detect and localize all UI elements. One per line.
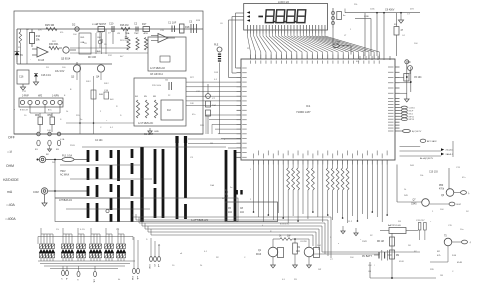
- svg-text:1: 1: [350, 29, 352, 31]
- svg-text:R16 1M: R16 1M: [120, 24, 128, 27]
- svg-text:A-VT1829-2/C: A-VT1829-2/C: [138, 122, 154, 125]
- resistor R16: [120, 24, 130, 31]
- svg-text:C8: C8: [84, 43, 88, 45]
- svg-text:R60: R60: [35, 115, 40, 117]
- ground G1: [271, 265, 276, 268]
- wire opamp row links: [70, 48, 148, 53]
- svg-text:R2: R2: [216, 257, 220, 259]
- svg-text:C8 1UF R14: C8 1UF R14: [150, 74, 163, 76]
- svg-text:2x: 2x: [80, 119, 83, 121]
- wire rail drop x100: [98, 31, 102, 48]
- svg-text:TRA: TRA: [125, 32, 130, 35]
- wire analog ground bus: [17, 62, 112, 64]
- svg-text:1k: 1k: [66, 111, 69, 113]
- svg-text:3V6: 3V6: [38, 30, 43, 32]
- svg-text:D: D: [146, 239, 148, 241]
- ground G5: [354, 228, 358, 236]
- svg-text:R10: R10: [36, 36, 41, 38]
- svg-text:5: 5: [224, 139, 226, 141]
- rotary switch wafer bar S1: [87, 150, 90, 218]
- svg-text:100: 100: [62, 67, 66, 69]
- svg-text:C3: C3: [190, 157, 194, 159]
- svg-text:R4: R4: [135, 96, 139, 98]
- svg-text:C9 400V: C9 400V: [385, 9, 395, 12]
- wire switch top rail: [82, 146, 226, 148]
- resistor R11: [30, 29, 41, 47]
- wire switch crossing 2: [70, 178, 152, 180]
- wire rail drop x113: [112, 31, 114, 44]
- svg-text:mA: mA: [7, 190, 13, 194]
- wire LCD-to-IC fan: [248, 34, 380, 55]
- diode-resistor group G1: [39, 228, 55, 261]
- wire COM to switch: [48, 190, 88, 192]
- svg-text:R12: R12: [108, 55, 113, 57]
- rotary switch wafer bar S11: [225, 150, 228, 221]
- svg-text:2-PNP: 2-PNP: [22, 96, 29, 98]
- diode-resistor group G6: [116, 228, 126, 261]
- LCD module outline: [244, 0, 328, 30]
- IC U1 bottom pin labels: [253, 151, 387, 159]
- svg-text:R15 100k: R15 100k: [152, 85, 162, 87]
- svg-text:/: /: [374, 265, 375, 267]
- connector P5: [148, 238, 160, 269]
- label HZ/DIODE range: [3, 178, 20, 182]
- wire top-left circuit border frame: [14, 11, 203, 134]
- svg-text:AC MAX: AC MAX: [60, 174, 70, 177]
- svg-text:x: x: [14, 109, 16, 111]
- svg-text:C1 10UF: C1 10UF: [144, 134, 154, 136]
- wire OFF bus: [8, 134, 203, 140]
- svg-text:0.1: 0.1: [204, 251, 208, 253]
- attenuator module outline: [55, 198, 238, 222]
- svg-text:47n: 47n: [192, 114, 196, 116]
- component stack near IC left: [206, 84, 217, 134]
- LCD annunciator arrows: [247, 11, 250, 22]
- rotary switch wafer bar S8: [162, 149, 165, 218]
- wire LCD backplane route: [229, 13, 237, 78]
- svg-text:B1: B1: [35, 149, 38, 151]
- wire bottom transistor links: [273, 238, 309, 265]
- op-amp IC1B: [32, 47, 48, 62]
- svg-text:C7: C7: [407, 14, 411, 16]
- resistor R32: [293, 243, 298, 254]
- output jack COM2: [452, 240, 472, 244]
- output jack AC: [454, 191, 471, 195]
- svg-text:1W: 1W: [26, 29, 29, 31]
- svg-text:0V4: 0V4: [410, 9, 415, 11]
- svg-text:470k: 470k: [439, 188, 445, 190]
- svg-text:10A: 10A: [131, 276, 134, 280]
- resistor R25 on rail: [45, 23, 57, 31]
- capacitor C11 C12: [416, 220, 426, 240]
- trimmer VR1: [214, 45, 222, 135]
- svg-text:LT: LT: [344, 35, 347, 37]
- svg-text:R28: R28: [200, 125, 205, 127]
- svg-text:R27: R27: [190, 77, 195, 79]
- resistor R8 col: [153, 96, 158, 118]
- svg-text:S2: S2: [370, 235, 373, 237]
- LCD digits 8.8.8.8: [265, 10, 305, 23]
- svg-text:10: 10: [172, 265, 175, 267]
- svg-text:C13: C13: [456, 167, 461, 169]
- diode-resistor group G2: [61, 228, 74, 261]
- svg-text:9013: 9013: [256, 254, 262, 256]
- svg-text:OFF: OFF: [8, 136, 15, 140]
- svg-text:D2: D2: [72, 23, 76, 27]
- IC U1 bottom pins: [254, 160, 388, 165]
- svg-text:R6 1M: R6 1M: [377, 241, 384, 243]
- svg-text:22k: 22k: [354, 4, 358, 6]
- hybrid module A-VT1829 box: [134, 78, 186, 126]
- svg-text:E: E: [64, 95, 66, 97]
- connector P1: [60, 266, 69, 280]
- label mA range: [7, 190, 13, 194]
- diode-resistor group G5: [104, 228, 114, 261]
- svg-text:R19: R19: [196, 20, 201, 22]
- svg-text:E B C E: E B C E: [20, 110, 28, 112]
- label cluster mid-left: [55, 56, 97, 73]
- ground top right: [398, 12, 403, 23]
- svg-text:C945: C945: [411, 204, 417, 206]
- wire right lower vertical: [448, 168, 450, 189]
- svg-text:AT2 2A32: AT2 2A32: [427, 140, 437, 143]
- LCD minus sign: [258, 16, 263, 18]
- svg-text:D: D: [120, 115, 122, 117]
- wire block verticals: [96, 29, 106, 54]
- svg-text:mA: mA: [157, 264, 160, 268]
- svg-text:D3: D3: [46, 67, 50, 69]
- transistor Q4: [96, 64, 105, 79]
- svg-text:104: 104: [350, 257, 354, 259]
- wire module1 bottom labels: [150, 74, 163, 76]
- rotary switch wafer bar S6: [140, 147, 143, 222]
- wire switch right links: [188, 139, 241, 153]
- svg-text:⏚: ⏚: [468, 191, 471, 195]
- resistor R7: [96, 23, 107, 31]
- svg-text:C1 1UF: C1 1UF: [168, 22, 177, 25]
- svg-text:10: 10: [24, 115, 27, 117]
- svg-text:10A: 10A: [210, 184, 214, 187]
- svg-text:47k: 47k: [60, 32, 64, 34]
- svg-text:C16: C16: [19, 76, 24, 79]
- op-amp IC1A: [151, 34, 175, 63]
- svg-text:R18: R18: [185, 26, 190, 29]
- svg-text:4148: 4148: [399, 261, 404, 263]
- svg-text:9012: 9012: [104, 83, 109, 85]
- switch contact circle: [106, 209, 109, 212]
- switch contact K1: [35, 132, 40, 151]
- svg-text:47k: 47k: [437, 255, 441, 257]
- rotary switch wafer caps: [175, 136, 187, 143]
- IC U1 top pins: [251, 55, 380, 60]
- svg-text:R41: R41: [81, 37, 86, 39]
- rotary switch wafer bar S12: [234, 150, 237, 221]
- svg-text:D2: D2: [466, 211, 470, 213]
- label switch bottom: [144, 134, 154, 136]
- svg-text:LCD3 1/2: LCD3 1/2: [278, 0, 290, 4]
- switch contact K2: [46, 132, 52, 156]
- svg-text:S: S: [60, 119, 62, 121]
- ground G4: [341, 226, 345, 234]
- svg-text:OHM: OHM: [6, 164, 14, 168]
- label 750V MAX: [60, 170, 70, 177]
- svg-text:Q7: Q7: [413, 200, 417, 202]
- svg-text:⏚: ⏚: [469, 240, 471, 244]
- rotary switch wafer bar S2: [96, 150, 99, 222]
- transistor Q3: [71, 62, 81, 79]
- svg-text:1M: 1M: [440, 275, 443, 277]
- svg-text:R50: R50: [439, 185, 444, 187]
- svg-text:PLE: PLE: [214, 45, 219, 47]
- svg-text:220: 220: [76, 115, 80, 117]
- rotary switch wafer bar S10: [184, 136, 187, 219]
- svg-text:D9: D9: [398, 221, 402, 223]
- svg-text:4k: 4k: [118, 279, 121, 281]
- ground at switch top: [148, 128, 159, 134]
- IC U1 left pin labels: [242, 68, 247, 158]
- svg-text:AL-A(C)36TV: AL-A(C)36TV: [420, 157, 434, 160]
- svg-text:R21 220: R21 220: [120, 40, 129, 42]
- capacitor C1 1uF: [168, 22, 177, 33]
- trimmer VR2: [406, 61, 412, 74]
- svg-text:1UF: 1UF: [190, 103, 195, 105]
- svg-text:FU1 0.5A: FU1 0.5A: [62, 154, 73, 157]
- resistor R12 vertical: [19, 29, 22, 64]
- IC U1 top pin numbers: [250, 61, 380, 64]
- regulator box: [380, 224, 418, 234]
- svg-text:C6: C6: [165, 80, 169, 82]
- connector P3: [93, 266, 97, 283]
- svg-text:C3: C3: [189, 21, 193, 24]
- svg-text:R2: R2: [437, 251, 441, 253]
- svg-text:B: B: [70, 89, 72, 91]
- hybrid module A-VT1820 box: [148, 37, 186, 71]
- ground G3: [307, 265, 312, 268]
- svg-text:R3: R3: [294, 279, 298, 281]
- label AL-AC36TV: [420, 157, 434, 160]
- svg-text:D7: D7: [108, 33, 112, 35]
- svg-text:C8: C8: [240, 208, 244, 210]
- resistor R31: [279, 236, 292, 241]
- svg-text:Q5 9014: Q5 9014: [61, 58, 71, 61]
- resistor R50: [48, 113, 55, 132]
- svg-text:ATT/B28-2/2: ATT/B28-2/2: [59, 199, 73, 202]
- svg-text:C0: C0: [220, 23, 224, 25]
- transistor Q1: [256, 247, 284, 257]
- svg-text:T5: T5: [444, 236, 447, 238]
- svg-text:1W: 1W: [287, 236, 291, 238]
- svg-text:C4 104: C4 104: [95, 140, 103, 142]
- svg-text:BUZ: BUZ: [457, 204, 462, 206]
- svg-text:22: 22: [168, 95, 171, 97]
- svg-text:104: 104: [296, 251, 301, 253]
- svg-text:-: -: [30, 59, 31, 61]
- svg-text:104: 104: [414, 43, 418, 45]
- svg-text:2: 2: [250, 199, 252, 201]
- transistor Q6: [441, 189, 454, 197]
- ground under C16: [20, 84, 25, 90]
- wire switch crossing 4: [66, 208, 150, 210]
- ground right mid: [404, 99, 409, 102]
- wire BP to IC: [333, 28, 351, 55]
- svg-text:V: V: [60, 278, 62, 280]
- svg-text:B C: B C: [48, 110, 52, 112]
- svg-text:Q1: Q1: [258, 250, 262, 252]
- hFE socket J1: [19, 98, 63, 107]
- svg-text:47u: 47u: [462, 177, 466, 179]
- svg-text:IC1-B: IC1-B: [38, 59, 45, 62]
- rotary switch wafer bar S7: [154, 149, 157, 218]
- svg-text:R17: R17: [142, 23, 147, 26]
- svg-text:C0051: C0051: [409, 107, 416, 109]
- transistor Q5: [59, 47, 76, 61]
- svg-text:41: 41: [158, 245, 161, 247]
- svg-text:9012: 9012: [86, 81, 91, 83]
- svg-text:104: 104: [73, 34, 77, 36]
- svg-text:hFE: hFE: [38, 96, 43, 98]
- svg-text:COM: COM: [33, 191, 39, 194]
- svg-text:4k7: 4k7: [120, 56, 124, 58]
- svg-text:2k: 2k: [200, 265, 203, 267]
- wire main V+ rail: [17, 28, 203, 30]
- resistor R13: [225, 189, 228, 197]
- svg-text:1k: 1k: [279, 236, 282, 238]
- svg-text:C20: C20: [160, 30, 165, 32]
- wire IC left pin feeds: [186, 82, 237, 138]
- svg-text:2W: 2W: [52, 162, 55, 164]
- svg-text:ON: ON: [368, 265, 372, 267]
- callout row C-2013: [420, 139, 437, 143]
- svg-text:PWR: PWR: [362, 241, 367, 243]
- callout row C(HL): [441, 148, 454, 151]
- svg-text:0.5A: 0.5A: [60, 138, 65, 141]
- svg-text:D8: D8: [408, 245, 412, 247]
- zener diode ZD1: [15, 52, 24, 58]
- rotary switch wafer bar S5: [131, 149, 134, 222]
- wire rail drop x126: [125, 29, 127, 39]
- battery BT1 9V: [362, 250, 392, 261]
- svg-text:R25 3M: R25 3M: [45, 23, 54, 27]
- wire second drop: [26, 29, 28, 64]
- svg-text:39k: 39k: [36, 40, 41, 42]
- switch contact K3: [56, 132, 61, 151]
- input jack V-ohm: [37, 156, 46, 162]
- svg-text:C12: C12: [22, 91, 27, 93]
- capacitor C2: [134, 23, 138, 32]
- wire top pins stub row: [360, 56, 390, 60]
- IC U1 ICL7106 outline: [241, 59, 395, 160]
- resistor R2 col: [134, 33, 139, 50]
- svg-text:1x: 1x: [230, 187, 233, 189]
- capacitor C5 right: [400, 74, 423, 94]
- svg-text:1%: 1%: [56, 229, 59, 231]
- IC U1 right pins: [395, 67, 400, 131]
- transistor Q2: [296, 247, 320, 258]
- svg-text:11.2: 11.2: [348, 221, 353, 223]
- ground G2: [293, 265, 298, 268]
- svg-text:⎓400A: ⎓400A: [5, 217, 16, 221]
- capacitor C14: [104, 90, 109, 99]
- wire IC bottom drops: [253, 165, 388, 224]
- capacitor C6 pair: [165, 80, 172, 91]
- svg-text:100k: 100k: [370, 9, 375, 11]
- svg-text:1UF: 1UF: [214, 72, 219, 74]
- svg-text:MP11: MP11: [409, 116, 415, 118]
- IC U1 label: [296, 104, 311, 114]
- svg-text:2: 2: [100, 111, 102, 113]
- svg-text:Q6: Q6: [441, 195, 445, 197]
- label ATT cable: [191, 218, 208, 222]
- svg-text:⎓V: ⎓V: [7, 150, 13, 154]
- svg-text:GND: GND: [154, 131, 159, 133]
- svg-text:R40: R40: [99, 94, 104, 96]
- label bottom right parts: [437, 251, 457, 257]
- connector P2: [76, 266, 80, 281]
- fuse FU1: [46, 154, 88, 161]
- svg-text:C4: C4: [402, 35, 406, 37]
- input jack COM: [33, 188, 48, 194]
- svg-text:IC1: IC1: [306, 104, 311, 108]
- svg-text:HZ/DIODE: HZ/DIODE: [3, 178, 20, 182]
- svg-text:ON: ON: [368, 271, 372, 273]
- svg-text:x6: x6: [180, 253, 183, 255]
- wire V tap down: [54, 159, 56, 198]
- wire top-right verticals: [355, 12, 385, 56]
- svg-text:R: R: [116, 106, 118, 108]
- IC U1 left pins: [237, 68, 242, 157]
- resistor R18 vertical: [180, 24, 191, 33]
- label C4 104: [95, 140, 103, 142]
- svg-text:C6 8W: C6 8W: [300, 241, 308, 243]
- svg-text:C11 C17: C11 C17: [416, 220, 425, 222]
- wire right pin 17 run: [400, 141, 454, 157]
- rotary switch wafer bar S9: [176, 136, 179, 219]
- svg-text:C5: C5: [228, 208, 232, 210]
- svg-text:1: 1: [432, 211, 434, 213]
- svg-text:R44: R44: [410, 165, 415, 167]
- svg-text:47: 47: [401, 30, 404, 32]
- wire bus harness: [133, 214, 331, 258]
- svg-text:C7: C7: [212, 98, 216, 100]
- svg-text:C15: C15: [448, 225, 453, 227]
- svg-text:A-VT1820-2/2: A-VT1820-2/2: [150, 67, 166, 70]
- svg-text:10U 16V: 10U 16V: [55, 70, 65, 73]
- svg-text:1-NPN: 1-NPN: [52, 96, 59, 98]
- svg-text:MP13: MP13: [409, 119, 415, 121]
- capacitor C10: [109, 23, 114, 33]
- svg-text:10u: 10u: [460, 229, 464, 231]
- transistor Q7: [411, 199, 429, 207]
- svg-text:+: +: [106, 120, 108, 122]
- svg-text:mA: mA: [93, 279, 96, 283]
- svg-text:C64: C64: [97, 37, 102, 39]
- svg-text:104: 104: [212, 105, 216, 107]
- svg-text:R49: R49: [404, 195, 409, 197]
- svg-text:1W: 1W: [318, 269, 321, 271]
- svg-text:10k: 10k: [420, 175, 424, 177]
- connector P4: [131, 237, 140, 280]
- wire feed to Q7: [397, 165, 422, 203]
- svg-text:C: C: [76, 279, 78, 281]
- svg-text:B3: B3: [56, 149, 59, 151]
- svg-text:B2: B2: [46, 154, 49, 156]
- svg-text:2A64L1: 2A64L1: [446, 153, 454, 156]
- svg-text:R35: R35: [430, 269, 435, 271]
- capacitor C3 vertical pair: [189, 21, 197, 34]
- LCD pins: [248, 30, 326, 34]
- label V range: [7, 150, 13, 154]
- svg-text:104: 104: [240, 212, 245, 214]
